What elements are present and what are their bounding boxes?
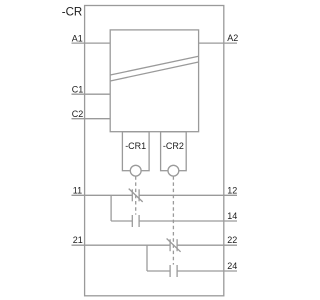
svg-text:-CR: -CR (62, 6, 82, 18)
wire 11 (72, 194, 133, 196)
wire 24 right segment (177, 270, 237, 272)
wire 14 left segment (111, 220, 132, 222)
NC contact 21-22 of -CR2 (167, 239, 181, 252)
branch wire from node 11 (110, 195, 112, 221)
svg-text:-CR2: -CR2 (163, 141, 184, 151)
wire A1 (72, 42, 111, 44)
diagonal line 1 inside module (110, 56, 198, 75)
NO contact 21-24 of -CR2 (170, 265, 177, 277)
svg-text:C2: C2 (72, 109, 84, 119)
coil -CR2 actuator circle (168, 165, 179, 176)
wire 12 (139, 194, 237, 196)
wire C1 (72, 93, 111, 95)
wire C2 (72, 118, 111, 120)
mechanical link dashed line of -CR1 (135, 176, 137, 214)
svg-text:24: 24 (227, 261, 237, 271)
outer enclosure frame (85, 6, 224, 296)
coil -CR1 box (122, 132, 149, 171)
coil -CR2 box (161, 132, 187, 171)
svg-text:A2: A2 (227, 33, 238, 43)
wire 22 (177, 244, 237, 246)
svg-text:11: 11 (73, 185, 82, 195)
relay module box U1 (110, 30, 198, 132)
NO contact 11-14 of -CR1 (132, 215, 139, 227)
wire 14 right segment (139, 220, 237, 222)
NC contact 11-12 of -CR1 (129, 189, 143, 202)
wire 24 left segment (147, 270, 170, 272)
svg-text:12: 12 (227, 185, 237, 195)
svg-text:A1: A1 (72, 33, 83, 43)
wire 21 (72, 244, 171, 246)
svg-text:C1: C1 (72, 84, 84, 94)
svg-text:21: 21 (73, 235, 83, 245)
branch wire from node 21 (146, 245, 148, 271)
svg-text:-CR1: -CR1 (125, 141, 146, 151)
coil -CR1 actuator circle (130, 165, 141, 176)
svg-text:22: 22 (227, 235, 237, 245)
svg-text:14: 14 (227, 211, 237, 221)
diagonal line 2 inside module (110, 62, 198, 81)
mechanical link dashed line of -CR2 (172, 176, 174, 264)
wire A2 (199, 42, 237, 44)
